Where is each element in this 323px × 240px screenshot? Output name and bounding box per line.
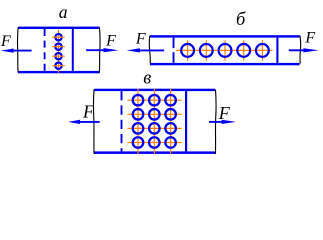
svg-text:в: в	[143, 69, 151, 89]
svg-text:б: б	[236, 10, 246, 30]
svg-text:F: F	[0, 33, 11, 50]
svg-text:F: F	[304, 29, 315, 46]
svg-text:F: F	[105, 33, 116, 50]
svg-text:F: F	[218, 103, 231, 123]
svg-text:а: а	[59, 2, 68, 22]
svg-text:F: F	[82, 102, 95, 122]
svg-text:F: F	[135, 30, 146, 47]
